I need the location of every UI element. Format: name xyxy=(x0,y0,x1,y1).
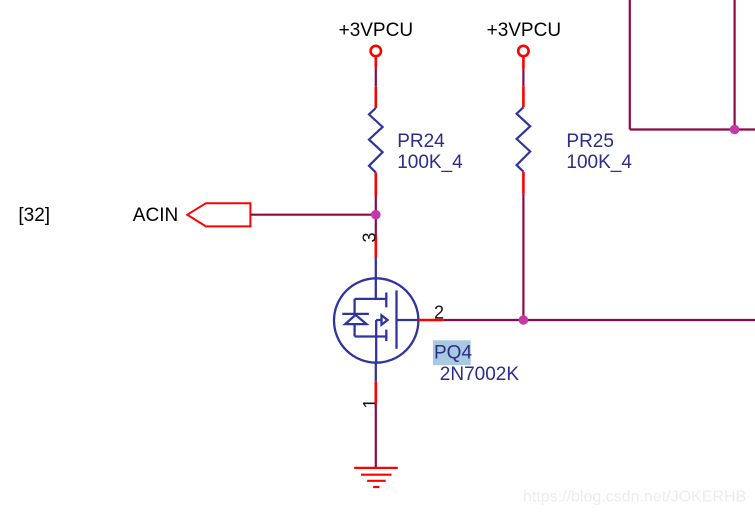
bottom channel stub xyxy=(385,330,387,341)
wire ACIN to node A xyxy=(250,214,375,216)
body circle xyxy=(334,278,418,362)
svg-text:ACIN: ACIN xyxy=(133,205,178,226)
svg-text:100K_4: 100K_4 xyxy=(566,152,632,173)
top contact xyxy=(355,298,387,300)
svg-text:+3VPCU: +3VPCU xyxy=(339,20,413,41)
body diode cathode bar xyxy=(342,313,369,315)
body diode bottom lead xyxy=(353,324,355,336)
svg-text:[32]: [32] xyxy=(18,205,50,226)
svg-text:100K_4: 100K_4 xyxy=(397,152,463,173)
pin 3 lead xyxy=(375,258,377,299)
wire rectangle top right: right edge xyxy=(733,0,735,130)
power symbol +3VPCU left xyxy=(339,20,413,56)
svg-text:2N7002K: 2N7002K xyxy=(440,364,520,385)
wire PR25 to node B xyxy=(522,172,525,320)
off-page connector ACIN xyxy=(187,203,250,226)
power symbol +3VPCU right xyxy=(487,20,561,56)
wire +3VPCU right to PR25 xyxy=(522,57,525,107)
label PR24 100K_4 xyxy=(397,131,463,173)
svg-text:PR24: PR24 xyxy=(397,131,445,152)
node B xyxy=(519,315,529,325)
wire pin 2 to node B and right edge xyxy=(418,319,755,322)
svg-text:+3VPCU: +3VPCU xyxy=(487,20,561,41)
source arrow head xyxy=(382,315,388,324)
wire rectangle top right: bottom edge xyxy=(630,128,755,130)
label PQ4 highlight xyxy=(433,340,471,365)
resistor PR24 xyxy=(369,108,383,172)
svg-text:PQ4: PQ4 xyxy=(434,342,472,363)
node C xyxy=(730,125,740,135)
top channel stub xyxy=(385,293,387,308)
gate to pin2 xyxy=(397,319,419,321)
body diode triangle xyxy=(345,315,366,324)
svg-text:3: 3 xyxy=(359,232,379,242)
source vertical xyxy=(375,320,377,363)
wire node A to pin 3 of PQ4 xyxy=(375,215,377,258)
wire +3VPCU left to PR24 xyxy=(374,57,377,108)
svg-text:PR25: PR25 xyxy=(566,131,614,152)
ground xyxy=(354,468,398,487)
gate bar xyxy=(395,290,397,348)
wire PR24 to node A xyxy=(374,172,377,214)
pin 1 lead xyxy=(375,363,377,382)
svg-text:https://blog.csdn.net/JOKERHB: https://blog.csdn.net/JOKERHB xyxy=(523,489,746,506)
body diode top lead xyxy=(353,299,355,314)
bottom contact xyxy=(355,335,387,337)
resistor PR25 xyxy=(517,107,531,171)
label PR25 100K_4 xyxy=(566,131,632,173)
source arrow line xyxy=(376,319,381,321)
node A xyxy=(371,210,381,220)
wire rectangle top right: left edge xyxy=(629,0,631,130)
wire pin 1 to ground xyxy=(374,382,377,467)
transistor PQ4 xyxy=(334,258,418,382)
